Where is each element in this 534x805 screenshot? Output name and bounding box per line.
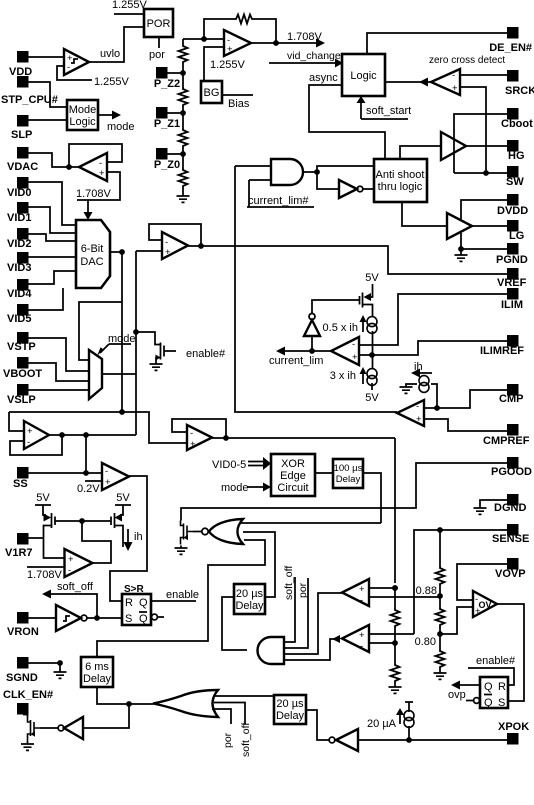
- svg-text:current_lim: current_lim: [269, 355, 323, 367]
- svg-text:XPOK: XPOK: [498, 721, 529, 733]
- svg-text:mode: mode: [221, 482, 249, 494]
- svg-text:1.708V: 1.708V: [27, 569, 63, 581]
- svg-text:Q: Q: [484, 681, 493, 693]
- svg-text:SS: SS: [13, 478, 28, 490]
- svg-text:-: -: [452, 70, 455, 81]
- svg-text:Q: Q: [139, 613, 148, 625]
- svg-text:DVDD: DVDD: [497, 205, 528, 217]
- svg-text:+: +: [68, 554, 74, 565]
- svg-text:VID3: VID3: [7, 262, 31, 274]
- svg-text:+: +: [190, 439, 196, 450]
- svg-text:-: -: [190, 428, 193, 439]
- svg-text:1.255V: 1.255V: [94, 76, 130, 88]
- svg-text:0.5 x ih: 0.5 x ih: [323, 322, 358, 334]
- svg-text:async: async: [309, 72, 338, 84]
- svg-text:por: por: [222, 732, 234, 748]
- svg-text:-: -: [27, 437, 30, 448]
- svg-text:+: +: [352, 352, 358, 363]
- svg-text:LG: LG: [509, 230, 524, 242]
- svg-text:ovp: ovp: [448, 689, 466, 701]
- svg-text:Bias: Bias: [228, 98, 250, 110]
- svg-text:thru logic: thru logic: [378, 181, 423, 193]
- svg-text:-: -: [105, 466, 108, 477]
- svg-text:uvlo: uvlo: [100, 48, 120, 60]
- svg-text:CLK_EN#: CLK_EN#: [3, 689, 53, 701]
- svg-text:S: S: [125, 613, 132, 625]
- svg-text:3 x ih: 3 x ih: [330, 370, 356, 382]
- svg-text:VREF: VREF: [497, 277, 527, 289]
- svg-text:soft_off: soft_off: [283, 566, 295, 600]
- svg-text:Q: Q: [139, 597, 148, 609]
- svg-text:Delay: Delay: [235, 600, 264, 612]
- svg-text:PGND: PGND: [496, 254, 528, 266]
- svg-text:P_Z1: P_Z1: [154, 118, 180, 130]
- svg-text:P_Z0: P_Z0: [154, 159, 180, 171]
- svg-text:5V: 5V: [365, 392, 379, 404]
- svg-text:SRCK: SRCK: [505, 85, 534, 97]
- svg-text:DGND: DGND: [494, 502, 526, 514]
- svg-text:CMP: CMP: [499, 393, 523, 405]
- svg-text:Edge: Edge: [280, 470, 306, 482]
- svg-text:+: +: [165, 247, 171, 258]
- svg-text:R: R: [125, 597, 133, 609]
- svg-text:-: -: [360, 595, 363, 606]
- svg-text:20 µA: 20 µA: [367, 718, 397, 730]
- svg-text:100 µs: 100 µs: [334, 463, 363, 474]
- svg-text:SW: SW: [506, 176, 524, 188]
- svg-text:VID5: VID5: [7, 313, 31, 325]
- svg-text:0.88: 0.88: [416, 585, 437, 597]
- svg-text:SLP: SLP: [11, 129, 32, 141]
- svg-text:Delay: Delay: [276, 710, 305, 722]
- svg-text:ih: ih: [134, 531, 143, 543]
- svg-text:1.255V: 1.255V: [210, 59, 246, 71]
- svg-text:VRON: VRON: [7, 626, 39, 638]
- svg-text:+: +: [105, 477, 111, 488]
- svg-text:Mode: Mode: [69, 104, 97, 116]
- svg-text:5V: 5V: [36, 492, 50, 504]
- svg-text:0.2V: 0.2V: [77, 483, 100, 495]
- svg-text:VOVP: VOVP: [495, 568, 526, 580]
- svg-text:DE_EN#: DE_EN#: [489, 42, 532, 54]
- svg-text:1.708V: 1.708V: [287, 31, 323, 43]
- svg-text:Q: Q: [484, 697, 493, 709]
- svg-text:CMPREF: CMPREF: [483, 435, 530, 447]
- svg-text:XOR: XOR: [281, 458, 305, 470]
- svg-text:+: +: [359, 584, 365, 595]
- svg-text:current_lim#: current_lim#: [248, 195, 309, 207]
- svg-text:6-Bit: 6-Bit: [81, 243, 104, 255]
- svg-text:por: por: [149, 49, 165, 61]
- svg-text:OV: OV: [479, 600, 492, 610]
- svg-text:0.80: 0.80: [415, 636, 436, 648]
- svg-text:VDAC: VDAC: [7, 161, 38, 173]
- svg-text:SENSE: SENSE: [492, 533, 529, 545]
- svg-text:+: +: [359, 630, 365, 641]
- svg-text:VID4: VID4: [7, 288, 32, 300]
- svg-text:Cboot: Cboot: [501, 118, 533, 130]
- svg-text:POR: POR: [147, 18, 171, 30]
- svg-text:soft_start: soft_start: [366, 105, 411, 117]
- svg-text:enable: enable: [166, 589, 199, 601]
- svg-text:vid_change: vid_change: [287, 50, 341, 62]
- svg-text:Delay: Delay: [336, 474, 361, 485]
- svg-text:Delay: Delay: [83, 673, 112, 685]
- svg-text:Anti shoot: Anti shoot: [376, 169, 425, 181]
- svg-text:+: +: [452, 83, 458, 94]
- svg-text:20 µs: 20 µs: [276, 698, 304, 710]
- svg-text:P_Z2: P_Z2: [154, 78, 180, 90]
- svg-text:VID0: VID0: [7, 187, 31, 199]
- svg-text:soft_off: soft_off: [57, 581, 94, 593]
- svg-text:SGND: SGND: [6, 672, 38, 684]
- svg-text:+: +: [416, 414, 422, 425]
- svg-text:ILIMREF: ILIMREF: [480, 345, 524, 357]
- svg-text:VSLP: VSLP: [7, 394, 36, 406]
- svg-text:mode: mode: [107, 121, 135, 133]
- svg-text:ILIM: ILIM: [501, 299, 523, 311]
- svg-text:enable#: enable#: [186, 348, 226, 360]
- svg-text:+: +: [227, 44, 233, 55]
- svg-text:20 µs: 20 µs: [236, 588, 264, 600]
- svg-text:V1R7: V1R7: [5, 547, 33, 559]
- svg-text:-: -: [352, 339, 355, 350]
- svg-text:S: S: [498, 697, 505, 709]
- svg-text:Circuit: Circuit: [277, 482, 308, 494]
- svg-text:HG: HG: [508, 150, 525, 162]
- svg-text:+: +: [99, 168, 105, 179]
- svg-text:1.255V: 1.255V: [112, 0, 148, 11]
- svg-text:VID2: VID2: [7, 238, 31, 250]
- svg-text:VBOOT: VBOOT: [3, 368, 42, 380]
- svg-text:VID0-5: VID0-5: [212, 459, 246, 471]
- svg-text:-: -: [416, 401, 419, 412]
- svg-text:Logic: Logic: [69, 116, 96, 128]
- svg-text:1.708V: 1.708V: [76, 188, 112, 200]
- svg-text:PGOOD: PGOOD: [491, 466, 532, 478]
- svg-text:por: por: [297, 582, 309, 598]
- svg-text:R: R: [498, 681, 506, 693]
- svg-text:VID1: VID1: [7, 212, 31, 224]
- svg-text:Logic: Logic: [350, 70, 377, 82]
- svg-text:BG: BG: [204, 87, 220, 99]
- svg-text:zero cross detect: zero cross detect: [429, 55, 505, 66]
- svg-text:6 ms: 6 ms: [85, 661, 109, 673]
- svg-text:-: -: [360, 641, 363, 652]
- svg-text:5V: 5V: [116, 492, 130, 504]
- svg-text:VSTP: VSTP: [7, 341, 36, 353]
- svg-text:DAC: DAC: [80, 256, 103, 268]
- svg-text:+: +: [27, 426, 33, 437]
- svg-text:-: -: [68, 565, 71, 576]
- svg-text:-: -: [67, 62, 70, 73]
- svg-text:5V: 5V: [365, 272, 379, 284]
- svg-text:enable#: enable#: [476, 655, 516, 667]
- svg-text:soft_off: soft_off: [240, 723, 252, 757]
